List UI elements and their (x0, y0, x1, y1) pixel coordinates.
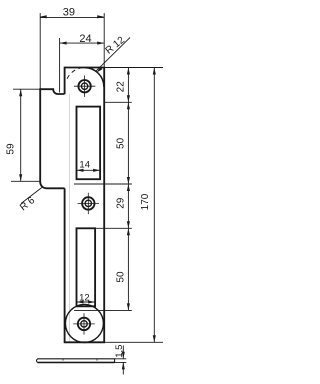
dim 14 line (77, 169, 101, 171)
svg-text:50: 50 (115, 137, 126, 149)
svg-text:12: 12 (79, 292, 90, 303)
dim 24 arrows (60, 42, 67, 45)
svg-text:59: 59 (5, 143, 16, 155)
dim 39 lines (40, 13, 104, 89)
bottom end inscribed circle R12 (65, 304, 103, 342)
screw hole top (74, 76, 95, 97)
dim 50 lower arrows (127, 228, 130, 235)
dim 14 arrows (77, 169, 84, 172)
dim 170 arrows (153, 68, 156, 75)
dim 39 arrows (40, 15, 47, 18)
side view strip (1.5 thick) (36, 359, 114, 363)
faint fold line (69, 94, 71, 342)
dim 29 arrows (127, 184, 130, 191)
dim 59 lines (11, 89, 40, 181)
screw hole middle (78, 193, 99, 214)
screw hole bottom (73, 313, 94, 334)
svg-text:39: 39 (63, 7, 75, 19)
dim 24 lines (60, 38, 105, 93)
strip tick marks (63, 359, 97, 361)
svg-text:170: 170 (140, 193, 151, 210)
dim 22 arrows (127, 68, 130, 75)
plate outline (top, right, bottom edges) (65, 68, 105, 343)
deadbolt slot (12 wide) (77, 228, 96, 306)
leader R12 (95, 38, 130, 72)
svg-text:1,5: 1,5 (114, 345, 125, 358)
svg-text:24: 24 (79, 33, 91, 45)
thin stroke dimension graphics (11, 13, 163, 374)
R12 leader arrow (96, 67, 102, 73)
plate left edge upper segment (64, 67, 66, 94)
top end arc hidden left quadrant (dashed) (67, 68, 82, 79)
side view extension lines (115, 359, 127, 363)
svg-text:22: 22 (115, 81, 126, 93)
dim 1.5 lines (122, 346, 124, 375)
right outer dimension line 170 (153, 68, 155, 343)
svg-text:14: 14 (79, 160, 90, 171)
right outer dim bottom extension (104, 341, 163, 343)
dim 1.5 arrows (122, 352, 125, 359)
plate left edge lower segment (64, 188, 66, 343)
dim 50 upper arrows (127, 102, 130, 109)
svg-text:50: 50 (115, 271, 126, 283)
dim 12 arrows (77, 300, 84, 303)
svg-text:29: 29 (115, 197, 126, 209)
top end arc R12 solid right quadrant (85, 68, 104, 87)
right inner dim extension lines (74, 68, 163, 311)
leader R6 (21, 187, 42, 203)
latch slot (14 wide) (77, 107, 101, 180)
dim 12 line (77, 301, 96, 303)
dimension texts (5, 7, 151, 358)
right inner dimension line 22/50/29/50 (127, 68, 129, 311)
lip (bent flange): stepped top edge, left edge, R6 bottom fillet (40, 89, 64, 188)
arrowheads (19, 15, 156, 369)
dim 59 arrows (19, 89, 22, 96)
